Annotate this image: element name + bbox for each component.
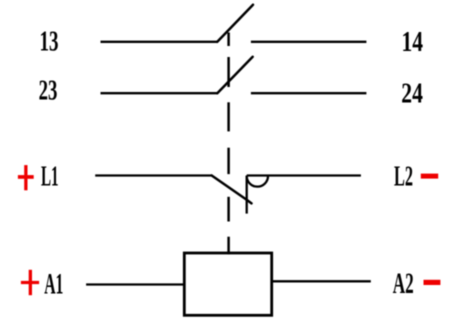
wire 23 left xyxy=(101,92,218,94)
fixed contact vertical L2 xyxy=(246,176,248,214)
wire 13 left xyxy=(101,41,218,43)
polarity plus A1 xyxy=(21,270,39,295)
wire A1 left xyxy=(86,283,184,285)
polarity plus L1 xyxy=(18,165,34,190)
contact blade 23-24 (NO contact) xyxy=(217,57,252,93)
svg-text:14: 14 xyxy=(402,26,424,58)
wire L1 left xyxy=(95,174,212,176)
mechanical linkage (dashed) xyxy=(227,33,230,255)
svg-text:24: 24 xyxy=(401,78,423,110)
wire A2 right xyxy=(272,280,371,282)
svg-text:L1: L1 xyxy=(41,161,59,193)
svg-text:13: 13 xyxy=(40,26,59,58)
svg-text:A2: A2 xyxy=(393,267,414,300)
contact blade 13-14 (NO contact) xyxy=(217,5,253,42)
magnetic blowout arc xyxy=(247,176,268,187)
svg-text:L2: L2 xyxy=(394,161,413,193)
wire 24 right xyxy=(251,92,367,94)
svg-text:A1: A1 xyxy=(44,267,63,300)
svg-text:23: 23 xyxy=(39,74,58,106)
coil K1 xyxy=(184,253,271,315)
wire 14 right xyxy=(251,41,367,43)
polarity minus L2 xyxy=(421,174,438,179)
wire L2 right xyxy=(247,174,361,176)
contact blade L1-L2 (NC load contact) xyxy=(212,176,252,204)
polarity minus A2 xyxy=(424,280,441,285)
